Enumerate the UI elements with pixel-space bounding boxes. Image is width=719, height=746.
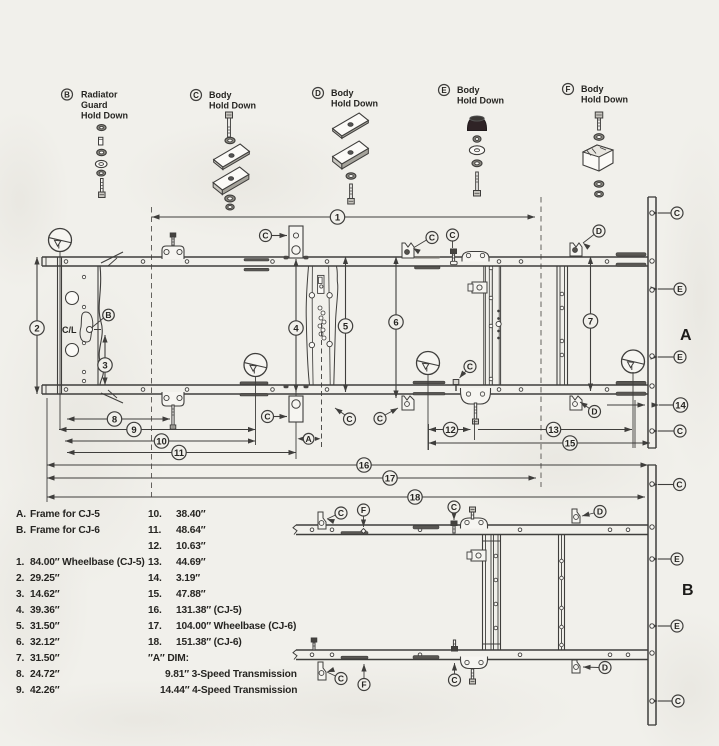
svg-text:E: E <box>677 284 683 294</box>
svg-text:C: C <box>338 508 344 518</box>
svg-text:C: C <box>467 362 473 372</box>
svg-text:14: 14 <box>675 400 686 411</box>
svg-text:E: E <box>674 554 680 564</box>
svg-text:9.: 9. <box>16 685 25 696</box>
svg-text:42.26″: 42.26″ <box>30 685 60 696</box>
svg-text:B: B <box>105 310 111 320</box>
svg-text:6: 6 <box>393 317 398 328</box>
svg-text:Frame for CJ-5: Frame for CJ-5 <box>30 509 100 520</box>
svg-text:4.: 4. <box>16 605 25 616</box>
svg-text:84.00″ Wheelbase (CJ-5): 84.00″ Wheelbase (CJ-5) <box>30 557 145 568</box>
svg-text:3.19″: 3.19″ <box>176 573 200 584</box>
svg-text:Body: Body <box>457 85 480 95</box>
svg-text:31.50″: 31.50″ <box>30 621 60 632</box>
svg-text:D: D <box>315 89 321 98</box>
svg-text:39.36″: 39.36″ <box>30 605 60 616</box>
svg-text:C: C <box>676 480 682 490</box>
svg-text:C: C <box>262 231 268 241</box>
svg-text:13: 13 <box>548 425 559 436</box>
svg-text:A: A <box>680 327 692 344</box>
svg-text:Guard: Guard <box>81 100 108 110</box>
svg-text:C: C <box>677 426 683 436</box>
svg-text:C: C <box>429 233 435 243</box>
svg-text:10: 10 <box>156 436 167 447</box>
svg-text:47.88″: 47.88″ <box>176 589 206 600</box>
svg-text:15: 15 <box>565 438 576 449</box>
svg-text:E: E <box>441 86 447 95</box>
svg-text:D: D <box>596 226 602 236</box>
svg-text:18.: 18. <box>148 637 162 648</box>
svg-text:16.: 16. <box>148 605 162 616</box>
svg-text:12.: 12. <box>148 541 162 552</box>
svg-text:7.: 7. <box>16 653 25 664</box>
svg-text:2.: 2. <box>16 573 25 584</box>
svg-text:A: A <box>306 434 312 444</box>
svg-text:B: B <box>682 582 694 599</box>
svg-text:C: C <box>193 91 199 100</box>
svg-text:3.: 3. <box>16 589 25 600</box>
svg-text:17.: 17. <box>148 621 162 632</box>
svg-text:32.12″: 32.12″ <box>30 637 60 648</box>
svg-text:8.: 8. <box>16 669 25 680</box>
svg-text:C: C <box>674 208 680 218</box>
svg-text:Body: Body <box>331 88 354 98</box>
svg-text:17: 17 <box>385 473 396 484</box>
svg-text:D: D <box>597 507 603 517</box>
svg-text:6.: 6. <box>16 637 25 648</box>
svg-text:151.38″ (CJ-6): 151.38″ (CJ-6) <box>176 637 242 648</box>
svg-text:C: C <box>346 414 352 424</box>
svg-text:Body: Body <box>581 84 604 94</box>
svg-text:F: F <box>361 505 366 515</box>
svg-text:104.00″ Wheelbase (CJ-6): 104.00″ Wheelbase (CJ-6) <box>176 621 296 632</box>
svg-text:16: 16 <box>359 460 370 471</box>
svg-text:Frame for CJ-6: Frame for CJ-6 <box>30 525 100 536</box>
svg-text:7: 7 <box>588 316 593 327</box>
svg-text:48.64″: 48.64″ <box>176 525 206 536</box>
svg-text:F: F <box>361 680 366 690</box>
svg-text:15.: 15. <box>148 589 162 600</box>
svg-text:1: 1 <box>335 212 341 223</box>
svg-text:Hold Down: Hold Down <box>81 111 128 121</box>
svg-text:B: B <box>64 90 70 99</box>
svg-text:2: 2 <box>34 323 39 334</box>
svg-text:11: 11 <box>174 448 185 459</box>
svg-text:Hold Down: Hold Down <box>331 99 378 109</box>
svg-text:C: C <box>377 414 383 424</box>
svg-text:B.: B. <box>16 525 26 536</box>
svg-text:D: D <box>602 663 608 673</box>
svg-text:14.: 14. <box>148 573 162 584</box>
svg-text:Hold Down: Hold Down <box>457 96 504 106</box>
svg-text:14.62″: 14.62″ <box>30 589 60 600</box>
svg-text:C: C <box>451 502 457 512</box>
svg-text:C: C <box>449 230 455 240</box>
svg-text:Hold Down: Hold Down <box>209 101 256 111</box>
svg-text:F: F <box>566 85 571 94</box>
svg-text:3: 3 <box>102 360 107 371</box>
svg-text:″A″ DIM:: ″A″ DIM: <box>148 653 189 664</box>
svg-text:C: C <box>675 696 681 706</box>
svg-text:C: C <box>264 412 270 422</box>
svg-text:C/L: C/L <box>62 325 77 335</box>
svg-text:Body: Body <box>209 90 232 100</box>
svg-text:Radiator: Radiator <box>81 90 118 100</box>
svg-text:C: C <box>338 674 344 684</box>
svg-text:31.50″: 31.50″ <box>30 653 60 664</box>
svg-text:12: 12 <box>445 425 456 436</box>
svg-text:24.72″: 24.72″ <box>30 669 60 680</box>
svg-text:18: 18 <box>410 492 421 503</box>
svg-text:9.81″ 3-Speed Transmission: 9.81″ 3-Speed Transmission <box>165 669 297 680</box>
svg-text:38.40″: 38.40″ <box>176 509 206 520</box>
svg-text:E: E <box>677 352 683 362</box>
svg-text:13.: 13. <box>148 557 162 568</box>
svg-text:C: C <box>451 675 457 685</box>
svg-text:1.: 1. <box>16 557 25 568</box>
svg-text:A.: A. <box>16 509 26 520</box>
svg-text:4: 4 <box>293 323 299 334</box>
svg-text:11.: 11. <box>148 525 161 536</box>
svg-text:44.69″: 44.69″ <box>176 557 206 568</box>
svg-text:10.: 10. <box>148 509 162 520</box>
svg-text:14.44″ 4-Speed Transmission: 14.44″ 4-Speed Transmission <box>160 685 297 696</box>
svg-text:29.25″: 29.25″ <box>30 573 60 584</box>
svg-text:9: 9 <box>131 425 136 436</box>
svg-text:E: E <box>674 621 680 631</box>
svg-text:8: 8 <box>112 414 117 425</box>
svg-text:D: D <box>591 407 597 417</box>
svg-text:Hold Down: Hold Down <box>581 95 628 105</box>
svg-text:5: 5 <box>343 321 349 332</box>
svg-text:131.38″ (CJ-5): 131.38″ (CJ-5) <box>176 605 242 616</box>
svg-text:10.63″: 10.63″ <box>176 541 206 552</box>
svg-text:5.: 5. <box>16 621 25 632</box>
